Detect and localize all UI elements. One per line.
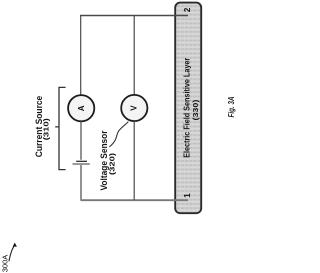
voltmeter U-V (voltage sensor)	[121, 95, 147, 121]
wire (battery to bottom node)	[80, 165, 82, 200]
ammeter U-A	[68, 95, 94, 121]
wire (top, from left node into layer under terminal 2)	[80, 15, 188, 17]
svg-text:A: A	[77, 105, 86, 111]
battery B1 (current source) short plate	[76, 160, 87, 162]
wire (bottom, from node into layer under terminal 1)	[80, 199, 188, 201]
wire (voltmeter down to bottom wire)	[133, 121, 135, 200]
label Voltage Sensor (320)	[99, 130, 117, 190]
bracket for current source label	[55, 87, 65, 169]
label Electric Field Sensitive Layer (330)	[183, 58, 201, 158]
wire (right branch upper: top wire down to voltmeter)	[133, 16, 135, 96]
svg-text:(320): (320)	[108, 152, 117, 175]
svg-text:2: 2	[183, 7, 192, 12]
wire (left branch upper: top node down to ammeter)	[80, 16, 82, 96]
svg-text:1: 1	[183, 193, 192, 198]
battery B1 long plate	[73, 163, 90, 165]
svg-text:(330): (330)	[191, 99, 200, 120]
label Current Source (310)	[34, 96, 50, 158]
wire (ammeter to battery)	[80, 121, 82, 160]
svg-text:V: V	[130, 105, 139, 111]
svg-text:(310): (310)	[42, 118, 51, 141]
leader line from label 320 to voltmeter	[109, 122, 128, 147]
svg-text:300A: 300A	[0, 255, 9, 273]
electric field sensitive layer 330 (hatched bar)	[175, 3, 201, 214]
svg-text:Fig. 3A: Fig. 3A	[227, 96, 236, 117]
arrow from 300A pointing to circuit	[9, 246, 14, 261]
